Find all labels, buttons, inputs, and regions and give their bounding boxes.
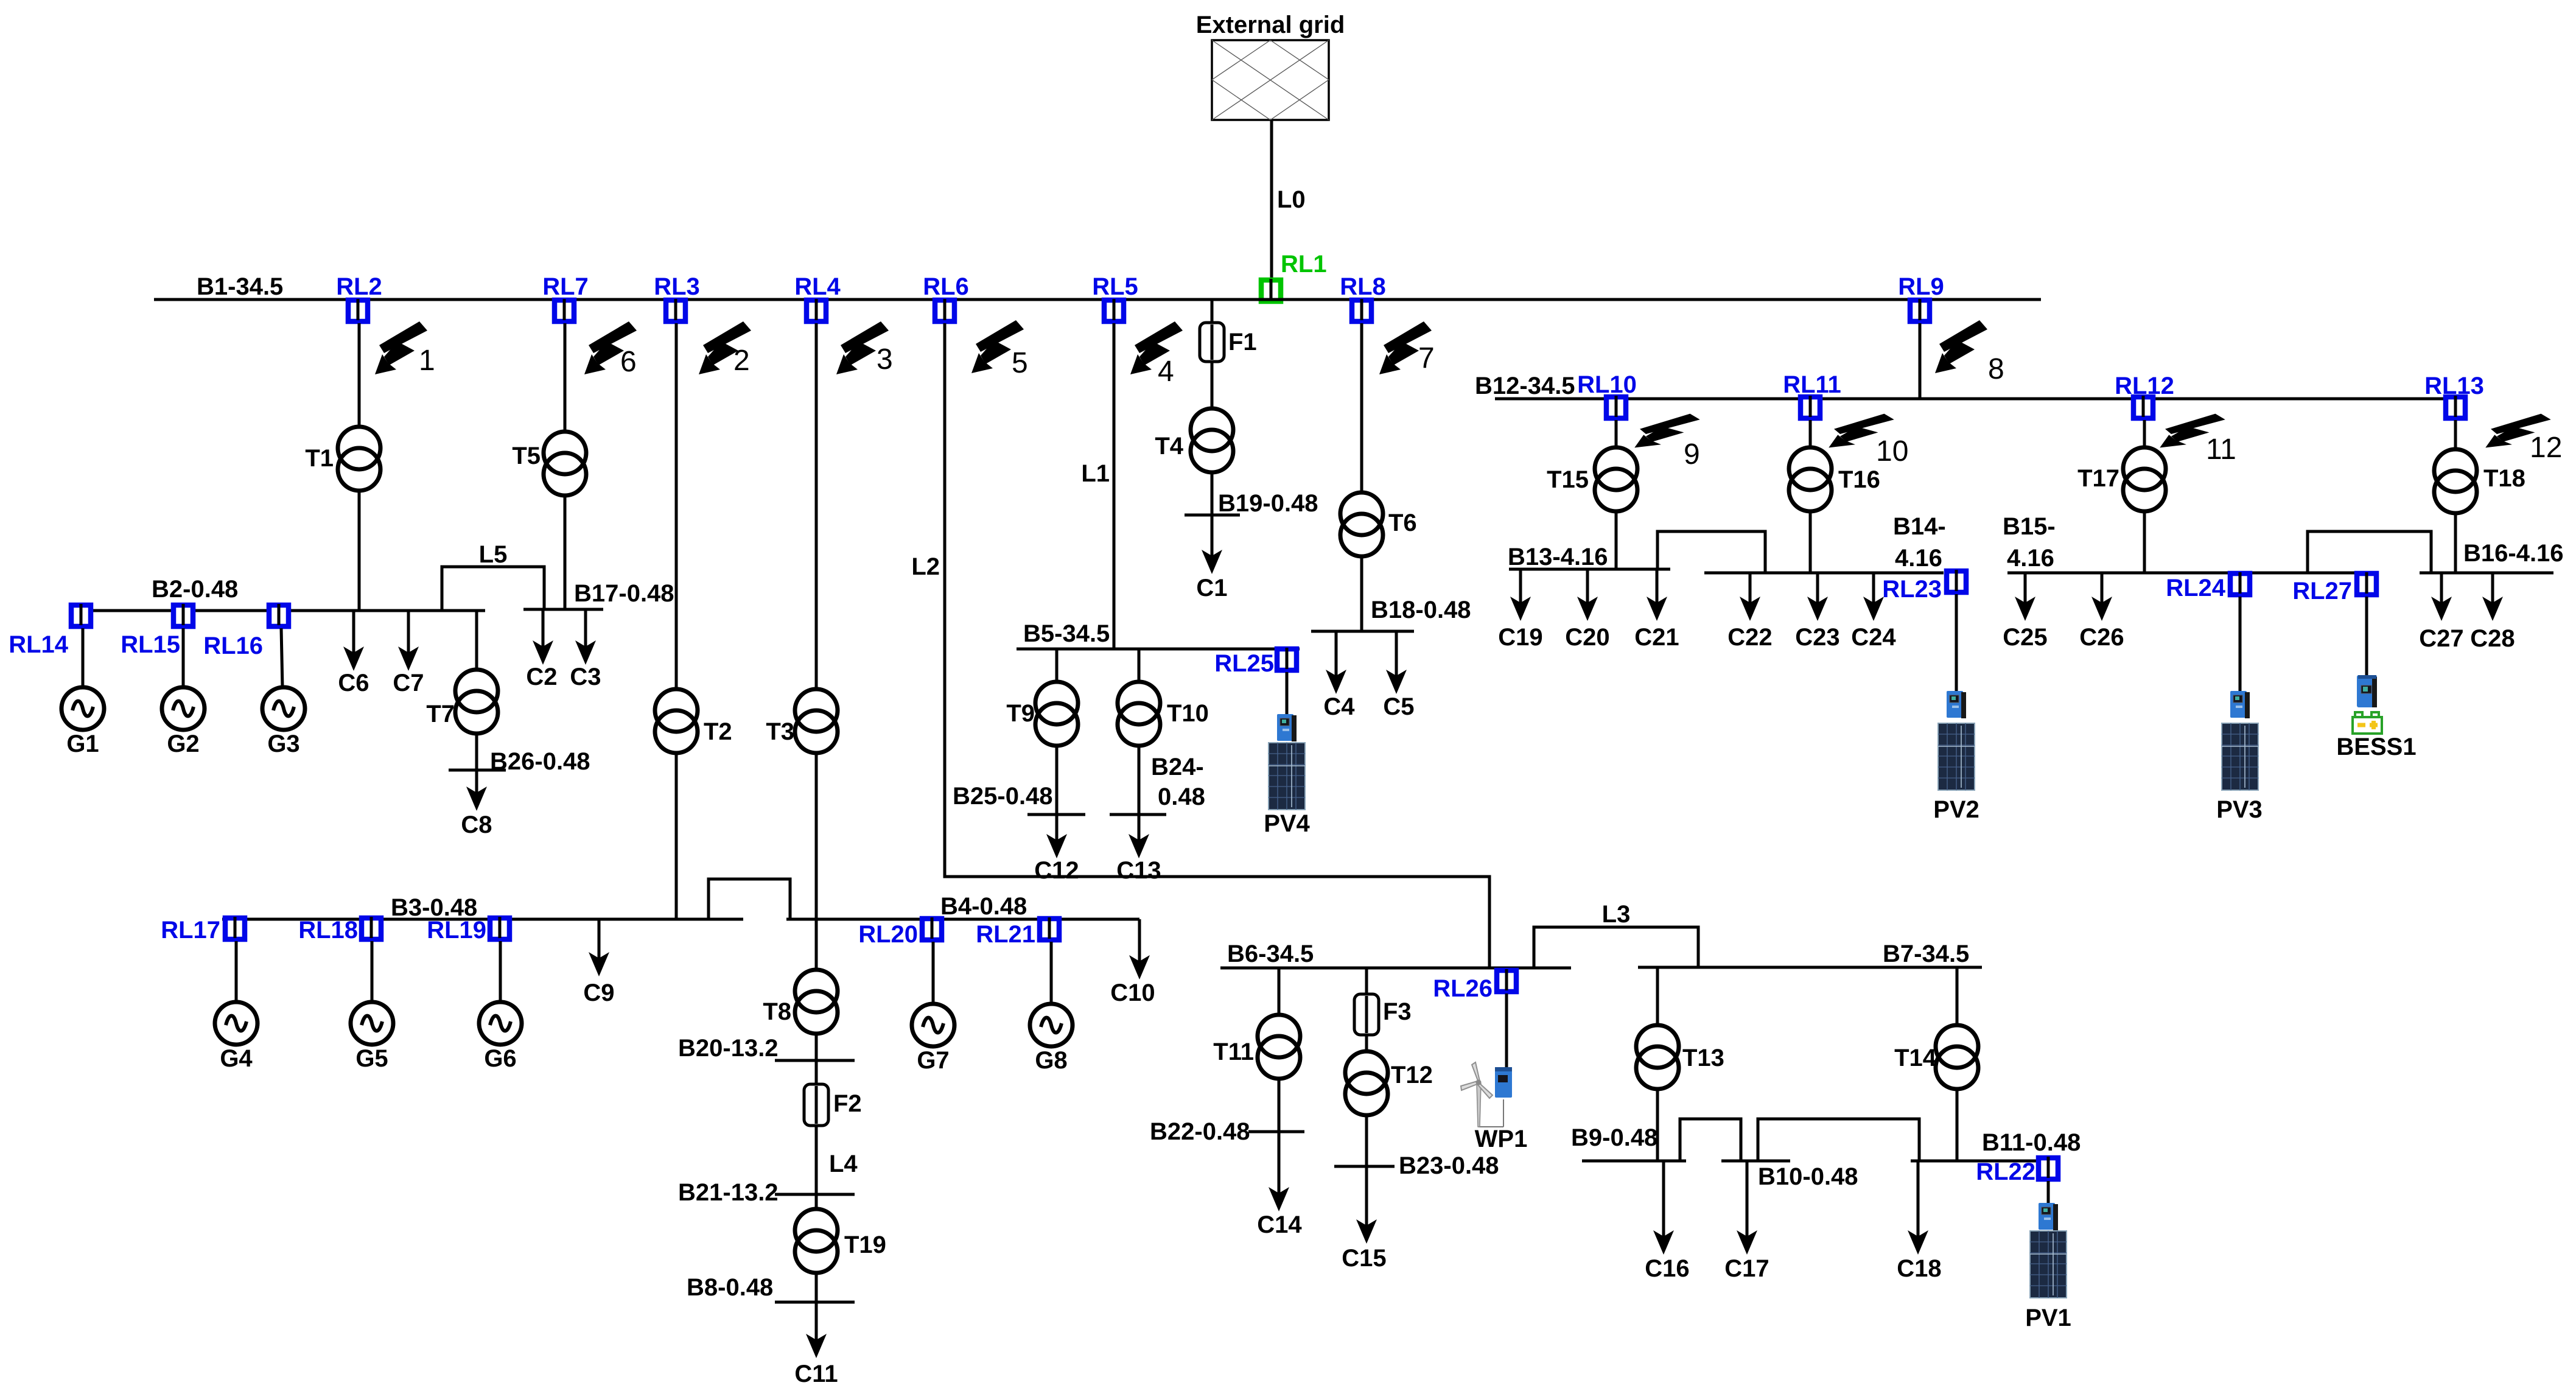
svg-text:12: 12 <box>2530 432 2562 464</box>
svg-text:PV1: PV1 <box>2025 1305 2071 1331</box>
bus coupler B9-B10 <box>1680 1119 1741 1161</box>
load C9 <box>598 919 601 959</box>
svg-text:C25: C25 <box>2003 624 2047 651</box>
svg-text:C1: C1 <box>1196 575 1227 601</box>
svg-text:C20: C20 <box>1565 624 1609 651</box>
wire F1 to T4 <box>1211 362 1214 408</box>
svg-text:B6-34.5: B6-34.5 <box>1227 941 1314 967</box>
relay RL3 <box>666 299 685 321</box>
wire RL7 to T5 <box>564 323 567 432</box>
svg-text:RL25: RL25 <box>1214 650 1274 677</box>
generator G3 <box>262 687 305 730</box>
wire RL27 to BESS1 <box>2365 597 2368 675</box>
svg-text:C10: C10 <box>1110 979 1155 1006</box>
bus B21-13.2 <box>775 1193 855 1196</box>
svg-text:B15-: B15- <box>2003 513 2056 540</box>
svg-text:B9-0.48: B9-0.48 <box>1571 1124 1657 1151</box>
svg-text:T19: T19 <box>844 1232 886 1258</box>
svg-text:2: 2 <box>733 345 750 377</box>
bus B8-0.48 <box>775 1301 855 1304</box>
svg-text:4: 4 <box>1158 356 1174 388</box>
transformer T14 <box>1936 1025 1978 1089</box>
svg-text:B22-0.48: B22-0.48 <box>1150 1118 1250 1145</box>
relay RL24 <box>2230 572 2250 595</box>
svg-text:10: 10 <box>1876 435 1908 468</box>
relay RL26 <box>1497 969 1516 992</box>
svg-text:T1: T1 <box>305 445 334 472</box>
load C28 <box>2491 573 2494 604</box>
svg-text:RL23: RL23 <box>1882 576 1942 603</box>
svg-text:B2-0.48: B2-0.48 <box>152 576 238 603</box>
svg-text:B18-0.48: B18-0.48 <box>1371 597 1471 623</box>
relay RL13 <box>2446 396 2465 418</box>
transformer T6 <box>1340 492 1383 556</box>
svg-text:RL13: RL13 <box>2424 373 2484 399</box>
bus B19-0.48 <box>1185 514 1240 517</box>
inverter PV3 <box>2230 691 2250 718</box>
fault bolt 2 <box>699 321 751 374</box>
load C24 <box>1872 573 1875 604</box>
svg-text:B17-0.48: B17-0.48 <box>574 580 674 607</box>
relay RL8 <box>1352 299 1371 321</box>
svg-text:B12-34.5: B12-34.5 <box>1475 373 1575 399</box>
fault bolt 4 <box>1130 321 1183 374</box>
relay RL10 <box>1606 396 1626 418</box>
bus B12-34.5 <box>1495 398 2467 401</box>
relay RL4 <box>807 299 826 321</box>
svg-text:G8: G8 <box>1035 1047 1067 1074</box>
bus B3-0.48 <box>222 918 743 921</box>
bus B26-0.48 <box>449 769 506 772</box>
svg-text:External grid: External grid <box>1196 12 1345 38</box>
svg-text:RL14: RL14 <box>9 631 69 658</box>
svg-text:C18: C18 <box>1897 1255 1941 1282</box>
load C4 <box>1335 631 1338 677</box>
svg-text:C3: C3 <box>570 664 601 690</box>
svg-text:RL5: RL5 <box>1092 273 1138 300</box>
generator G7 <box>912 1004 954 1046</box>
svg-text:T16: T16 <box>1838 466 1880 493</box>
relay RL12 <box>2133 396 2153 418</box>
svg-text:C17: C17 <box>1724 1255 1769 1282</box>
bus B17-0.48 <box>523 608 603 611</box>
svg-text:T17: T17 <box>2077 465 2119 492</box>
svg-text:7: 7 <box>1418 342 1435 374</box>
load C17 <box>1746 1161 1749 1238</box>
wire RL19 to G6 <box>499 941 502 1003</box>
svg-text:T4: T4 <box>1155 433 1183 460</box>
bus B7-34.5 <box>1638 966 1982 969</box>
relay RL5 <box>1104 299 1124 321</box>
load C21 <box>1656 569 1659 604</box>
bus coupler B10-B11 <box>1758 1119 1919 1161</box>
bus coupler B15-B16 <box>2308 531 2431 573</box>
wire F3 to T12 <box>1365 1035 1368 1051</box>
svg-text:B16-4.16: B16-4.16 <box>2463 540 2564 567</box>
load C6 <box>352 611 355 654</box>
line L1 <box>1113 323 1116 649</box>
wire T1 to B2 <box>358 491 361 611</box>
svg-text:G6: G6 <box>484 1045 516 1072</box>
wire T11 to B22 <box>1278 1079 1281 1132</box>
transformer T4 <box>1191 408 1233 472</box>
fault bolt 11 <box>2160 414 2225 448</box>
wire RL4 to T3 <box>815 323 818 689</box>
wire T9 to B25 <box>1055 746 1059 815</box>
relay RL22 <box>2039 1157 2058 1179</box>
load C14 <box>1278 1132 1281 1194</box>
transformer T5 <box>544 432 586 496</box>
svg-text:C16: C16 <box>1645 1255 1689 1282</box>
svg-text:B26-0.48: B26-0.48 <box>490 748 590 775</box>
wire RL3 to T2 <box>675 323 678 689</box>
load C25 <box>2024 573 2027 604</box>
fuse F3 w wire <box>1365 968 1368 994</box>
svg-text:B20-13.2: B20-13.2 <box>678 1035 779 1062</box>
svg-text:RL24: RL24 <box>2166 575 2226 601</box>
relay RL25 <box>1277 648 1297 670</box>
pv panel PV3 <box>2222 723 2258 790</box>
wire T8 to F2 <box>815 1034 818 1084</box>
inverter BESS1 <box>2357 675 2377 707</box>
svg-text:RL6: RL6 <box>923 273 969 300</box>
load C11 <box>815 1302 818 1341</box>
wire B6 to T11 <box>1278 968 1281 1015</box>
inverter PV4 <box>1277 714 1297 741</box>
svg-text:C2: C2 <box>526 664 557 690</box>
load C3 <box>584 609 587 648</box>
wire RL15 to G2 <box>182 628 185 687</box>
svg-text:C14: C14 <box>1257 1211 1302 1238</box>
svg-text:C23: C23 <box>1795 624 1839 651</box>
transformer T16 <box>1789 447 1832 511</box>
relay RL1 <box>1261 279 1281 301</box>
wire RL16 to G3 <box>281 628 282 687</box>
svg-text:B4-0.48: B4-0.48 <box>940 893 1027 920</box>
line L3 <box>1534 927 1698 968</box>
svg-text:BESS1: BESS1 <box>2336 734 2416 760</box>
svg-text:G5: G5 <box>355 1045 388 1072</box>
relay RL6 <box>935 299 954 321</box>
wire T5 to B17 <box>564 496 567 609</box>
transformer T11 <box>1258 1015 1300 1079</box>
wire B7 to T13 <box>1656 967 1659 1025</box>
wire RL18 to G5 <box>371 941 374 1003</box>
generator G8 <box>1030 1004 1073 1046</box>
transformer T2 <box>655 689 698 753</box>
wire T19 to B8 <box>815 1273 818 1302</box>
svg-text:C4: C4 <box>1323 693 1355 720</box>
load C13 <box>1138 815 1141 841</box>
wire T17 to B15 <box>2143 511 2146 573</box>
svg-text:B24-: B24- <box>1151 754 1204 780</box>
bus B6-34.5 <box>1220 967 1571 970</box>
svg-text:WP1: WP1 <box>1475 1126 1528 1152</box>
fault bolt 10 <box>1829 414 1894 448</box>
transformer T17 <box>2123 447 2166 511</box>
svg-text:0.48: 0.48 <box>1158 783 1205 810</box>
bus B23-0.48 <box>1334 1165 1395 1168</box>
svg-text:4.16: 4.16 <box>2007 545 2054 572</box>
wire T16 to B14 <box>1809 511 1812 573</box>
svg-text:3: 3 <box>877 343 893 376</box>
svg-text:RL26: RL26 <box>1433 975 1493 1002</box>
wire T14 to B11 <box>1956 1089 1959 1161</box>
transformer T9 <box>1035 682 1078 746</box>
svg-text:C13: C13 <box>1116 857 1161 884</box>
svg-text:B14-: B14- <box>1893 513 1946 540</box>
wire L4 <box>815 1126 818 1209</box>
generator G2 <box>162 687 205 730</box>
svg-text:C22: C22 <box>1727 624 1772 651</box>
svg-text:RL21: RL21 <box>976 921 1035 948</box>
bus B1-34.5 <box>154 298 2041 301</box>
svg-text:B8-0.48: B8-0.48 <box>687 1274 773 1301</box>
transformer T1 <box>338 427 380 491</box>
wire B2 to T7 <box>475 611 478 670</box>
wire B1 to F1 <box>1211 300 1214 324</box>
wire line L0 <box>1270 120 1273 278</box>
bus B14-4.16 <box>1704 572 1944 575</box>
svg-text:B7-34.5: B7-34.5 <box>1883 941 1969 967</box>
transformer T18 <box>2434 449 2477 513</box>
svg-text:F3: F3 <box>1383 998 1412 1025</box>
bus B10-0.48 <box>1721 1160 1790 1163</box>
relay RL23 <box>1947 570 1966 592</box>
svg-text:B1-34.5: B1-34.5 <box>197 273 283 300</box>
inverter PV1 <box>2039 1203 2058 1230</box>
svg-text:RL12: RL12 <box>2115 373 2174 399</box>
svg-text:PV4: PV4 <box>1264 810 1310 837</box>
load C1 <box>1211 515 1214 557</box>
wire T2 to B3 <box>675 753 678 919</box>
svg-text:L0: L0 <box>1277 186 1306 213</box>
wire RL14 to G1 <box>82 628 85 687</box>
bus B20-13.2 <box>775 1059 855 1062</box>
load C5 <box>1395 631 1398 677</box>
svg-text:RL22: RL22 <box>1976 1158 2035 1185</box>
fault bolt 9 <box>1634 414 1700 448</box>
generator G5 <box>351 1002 393 1045</box>
line L5 link <box>442 567 544 611</box>
bus B16-4.16 <box>2420 572 2553 575</box>
svg-text:C19: C19 <box>1498 624 1542 651</box>
svg-text:RL9: RL9 <box>1898 273 1944 300</box>
svg-text:T7: T7 <box>426 701 455 727</box>
svg-text:C15: C15 <box>1342 1245 1386 1272</box>
svg-text:B5-34.5: B5-34.5 <box>1023 620 1110 647</box>
generator G4 <box>215 1002 257 1045</box>
fault bolt 7 <box>1379 321 1432 374</box>
svg-text:T2: T2 <box>704 718 732 745</box>
wire RL24 to PV3 <box>2239 597 2242 691</box>
fault bolt 5 <box>971 320 1024 373</box>
svg-text:G1: G1 <box>66 731 99 757</box>
bus B2-0.48 <box>69 609 485 612</box>
svg-text:L2: L2 <box>911 553 940 580</box>
line L2 <box>945 323 1489 968</box>
fault bolt 1 <box>375 321 427 374</box>
external grid source <box>1212 40 1329 120</box>
svg-text:C5: C5 <box>1383 693 1414 720</box>
relay RL17 <box>225 917 245 939</box>
svg-text:RL8: RL8 <box>1340 273 1386 300</box>
svg-text:T15: T15 <box>1547 466 1589 493</box>
load C19 <box>1519 569 1522 604</box>
svg-text:C12: C12 <box>1034 857 1079 884</box>
inverter PV2 <box>1947 691 1966 718</box>
wire B5 to T9 <box>1055 649 1059 682</box>
svg-text:5: 5 <box>1012 347 1028 379</box>
bus B5-34.5 <box>1017 648 1300 651</box>
fuse F2 <box>815 1084 818 1126</box>
load C26 <box>2101 573 2104 604</box>
relay RL11 <box>1801 396 1820 418</box>
wire T12 to B23 <box>1365 1115 1368 1166</box>
bus B9-0.48 <box>1582 1160 1686 1163</box>
fuse F1 <box>1211 323 1214 362</box>
battery BESS1 <box>2353 712 2382 734</box>
svg-text:PV2: PV2 <box>1933 796 1979 823</box>
relay RL21 <box>1040 917 1059 940</box>
svg-text:C24: C24 <box>1851 624 1896 651</box>
wire RL21 to G8 <box>1050 942 1053 1004</box>
svg-text:B19-0.48: B19-0.48 <box>1218 490 1318 517</box>
svg-text:L4: L4 <box>829 1151 858 1177</box>
svg-text:B11-0.48: B11-0.48 <box>1982 1129 2081 1156</box>
wire RL10 to T15 <box>1615 420 1618 448</box>
wire RL2 to T1 <box>358 323 361 427</box>
svg-text:RL18: RL18 <box>298 917 358 944</box>
svg-text:RL4: RL4 <box>794 273 841 300</box>
transformer T19 <box>795 1209 838 1273</box>
svg-text:B25-0.48: B25-0.48 <box>953 783 1053 810</box>
load C20 <box>1586 569 1589 604</box>
svg-text:T9: T9 <box>1006 700 1035 727</box>
relay RL7 <box>555 299 574 321</box>
svg-text:C11: C11 <box>794 1361 838 1387</box>
svg-text:RL11: RL11 <box>1783 371 1841 398</box>
transformer T3 <box>795 689 838 753</box>
bus B24-0.48 <box>1110 813 1166 816</box>
svg-text:PV3: PV3 <box>2216 796 2263 823</box>
wire RL20 to G7 <box>932 942 935 1004</box>
transformer T15 <box>1595 447 1637 511</box>
svg-text:RL1: RL1 <box>1281 251 1327 278</box>
svg-text:6: 6 <box>620 346 637 378</box>
load C16 <box>1662 1161 1665 1238</box>
svg-text:C6: C6 <box>338 670 369 696</box>
load C22 <box>1749 573 1752 604</box>
svg-text:RL15: RL15 <box>121 631 180 658</box>
bus B11-0.48 <box>1911 1160 2038 1163</box>
svg-text:T11: T11 <box>1213 1039 1254 1065</box>
generator G6 <box>479 1002 522 1045</box>
relay RL2 <box>348 299 368 321</box>
svg-text:T12: T12 <box>1391 1062 1433 1088</box>
relay RL18 <box>362 917 381 939</box>
svg-text:11: 11 <box>2206 433 2236 466</box>
svg-text:4.16: 4.16 <box>1895 545 1942 572</box>
svg-text:RL10: RL10 <box>1577 371 1637 398</box>
wire B5 to T10 <box>1138 649 1141 682</box>
wire RL13 to T18 <box>2454 420 2457 449</box>
svg-text:RL16: RL16 <box>203 632 263 659</box>
svg-text:T5: T5 <box>512 443 541 469</box>
wire T7 to B26 <box>475 734 478 770</box>
load C23 <box>1816 573 1819 604</box>
fault bolt 6 <box>584 321 637 374</box>
svg-text:T10: T10 <box>1167 700 1209 727</box>
svg-text:B21-13.2: B21-13.2 <box>678 1179 779 1206</box>
pv panel PV2 <box>1938 723 1975 790</box>
wire T3 to T8 <box>815 753 818 970</box>
load C7 <box>407 611 410 654</box>
wire RL23 to PV2 <box>1955 594 1958 691</box>
relay RL16 <box>269 604 289 626</box>
wire B7 to T14 <box>1956 967 1959 1025</box>
load C10 <box>1138 919 1141 962</box>
svg-text:RL17: RL17 <box>161 917 220 944</box>
wire RL8 to T6 <box>1360 323 1363 492</box>
relay RL14 <box>71 604 91 626</box>
pv panel PV4 <box>1269 743 1305 810</box>
fault bolt 8 <box>1935 320 1987 373</box>
svg-text:L3: L3 <box>1602 901 1631 928</box>
svg-text:T8: T8 <box>763 998 791 1025</box>
fault bolt 12 <box>2485 414 2551 448</box>
svg-text:T3: T3 <box>766 718 794 745</box>
load C12 <box>1055 815 1059 841</box>
wire RL25 to PV4 <box>1286 672 1289 714</box>
wind turbine WP1 <box>1461 1062 1503 1127</box>
svg-text:F1: F1 <box>1228 329 1257 356</box>
bus B25-0.48 <box>1027 813 1085 816</box>
svg-text:C21: C21 <box>1634 624 1679 651</box>
load C18 <box>1917 1161 1920 1238</box>
transformer T13 <box>1636 1025 1679 1089</box>
wire T18 to B16 <box>2454 513 2457 573</box>
load C2 <box>542 609 545 648</box>
wire RL12 to T17 <box>2143 420 2146 448</box>
load C8 <box>475 770 478 794</box>
svg-text:1: 1 <box>419 345 435 377</box>
wire RL17 to G4 <box>235 941 238 1003</box>
svg-text:L1: L1 <box>1081 460 1110 487</box>
svg-text:B13-4.16: B13-4.16 <box>1508 544 1608 570</box>
svg-text:9: 9 <box>1684 438 1700 471</box>
relay RL27 <box>2357 572 2376 595</box>
wire T13 to B9 <box>1656 1089 1659 1161</box>
transformer T12 <box>1345 1051 1388 1115</box>
svg-text:G3: G3 <box>267 731 299 757</box>
fuse F3 <box>1365 994 1368 1035</box>
bus B13-4.16 <box>1509 568 1670 571</box>
svg-text:F2: F2 <box>833 1090 862 1117</box>
svg-text:B10-0.48: B10-0.48 <box>1758 1163 1858 1190</box>
bus B18-0.48 <box>1311 630 1414 633</box>
wire T4 to B19 <box>1211 472 1214 515</box>
svg-text:RL7: RL7 <box>542 273 589 300</box>
svg-text:C26: C26 <box>2079 624 2124 651</box>
wire T6 to B18 <box>1360 556 1363 631</box>
pv panel PV1 <box>2030 1231 2067 1298</box>
wire RL9 to B12 <box>1919 323 1922 399</box>
svg-text:C28: C28 <box>2470 625 2515 652</box>
bus B15-4.16 <box>2007 572 2378 575</box>
svg-text:C8: C8 <box>461 811 492 838</box>
transformer T7 <box>455 670 498 734</box>
